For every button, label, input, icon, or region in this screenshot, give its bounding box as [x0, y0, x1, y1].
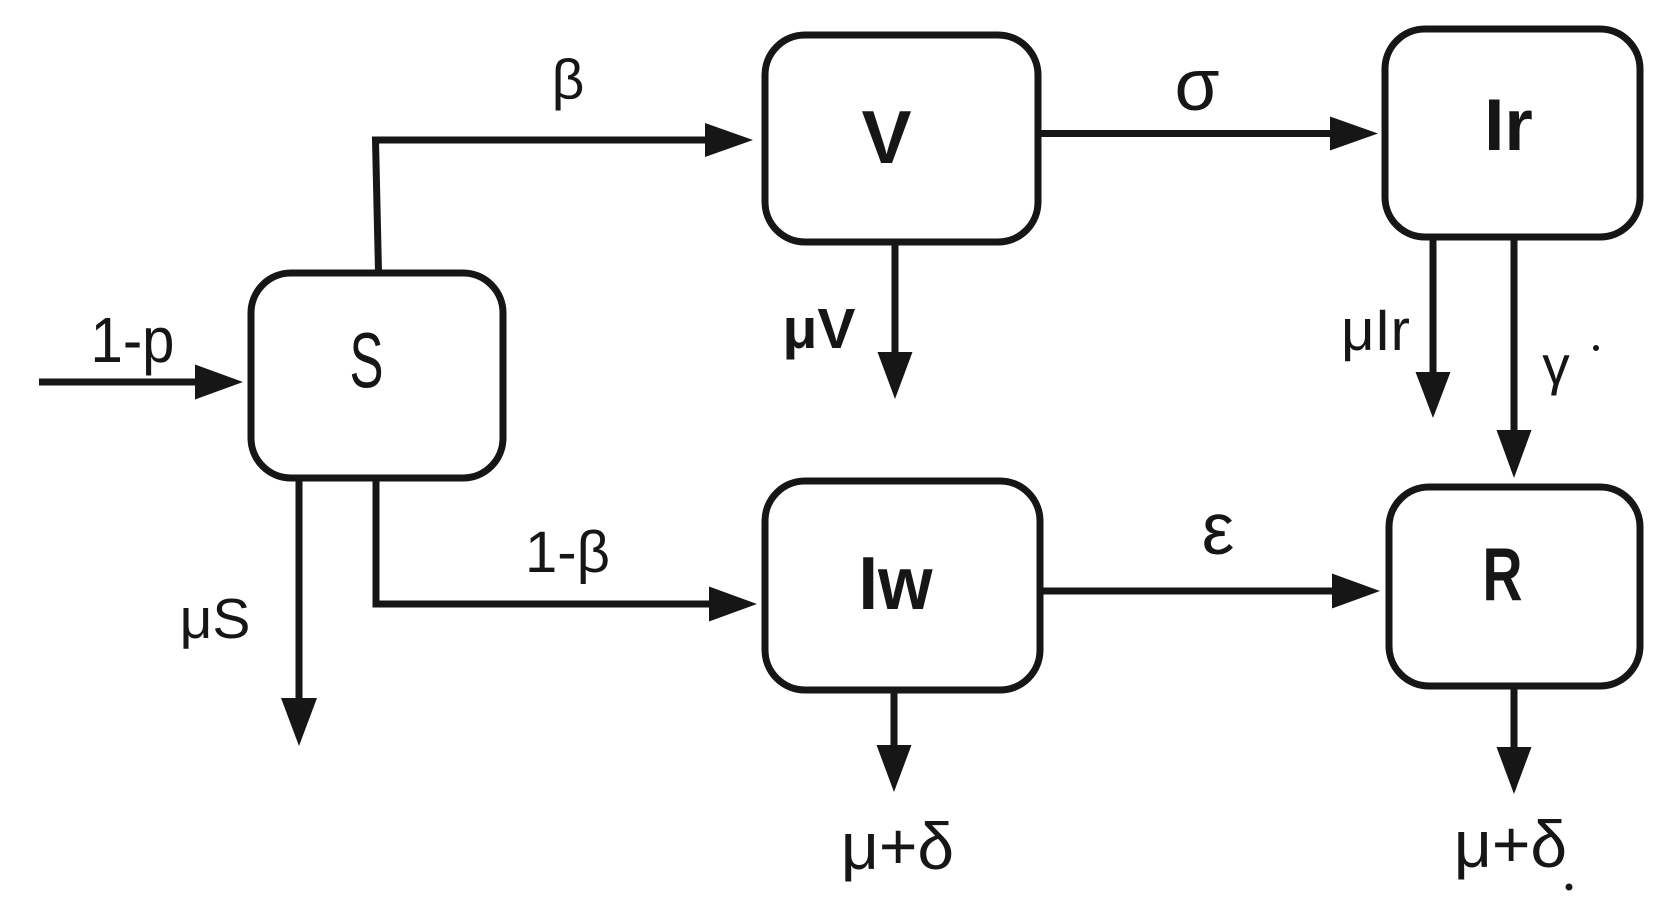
- svg-text:Iw: Iw: [859, 541, 934, 625]
- gamma dot: [1593, 345, 1599, 351]
- wire R death (mu+delta): [1497, 686, 1532, 794]
- svg-text:μ+δ: μ+δ: [1454, 807, 1567, 881]
- svg-text:σ: σ: [1174, 45, 1219, 126]
- wire Ir death (muIr): [1416, 237, 1451, 418]
- wire S death (muS): [281, 478, 317, 746]
- wire V to Ir (sigma): [1041, 117, 1378, 151]
- wire input 1-p arrow: [39, 365, 243, 400]
- node Iw: [765, 481, 1040, 690]
- trailing dot after mu+delta under R: [1566, 884, 1573, 891]
- wire S to Iw (1-beta): [376, 478, 757, 622]
- svg-text:μIr: μIr: [1341, 298, 1410, 363]
- svg-text:β: β: [552, 48, 585, 112]
- svg-text:1-β: 1-β: [525, 520, 610, 585]
- wire Iw death (mu+delta): [877, 690, 912, 792]
- wire V death (muV): [878, 242, 913, 399]
- svg-text:1-p: 1-p: [91, 304, 175, 376]
- svg-text:ε: ε: [1202, 489, 1235, 570]
- wire S to V (beta): [376, 123, 754, 272]
- node S: [251, 273, 503, 478]
- node V: [765, 35, 1038, 242]
- svg-text:Ir: Ir: [1484, 85, 1533, 166]
- node R: [1389, 487, 1640, 686]
- svg-text:S: S: [350, 316, 384, 404]
- wire Ir to R (gamma): [1497, 237, 1532, 478]
- svg-text:R: R: [1483, 532, 1523, 616]
- svg-text:μS: μS: [180, 587, 251, 651]
- svg-text:μ+δ: μ+δ: [841, 809, 954, 883]
- svg-text:μV: μV: [783, 297, 856, 361]
- wire Iw to R (epsilon): [1040, 574, 1380, 609]
- svg-text:γ: γ: [1542, 334, 1570, 396]
- svg-text:V: V: [861, 95, 911, 179]
- node Ir: [1385, 29, 1640, 237]
